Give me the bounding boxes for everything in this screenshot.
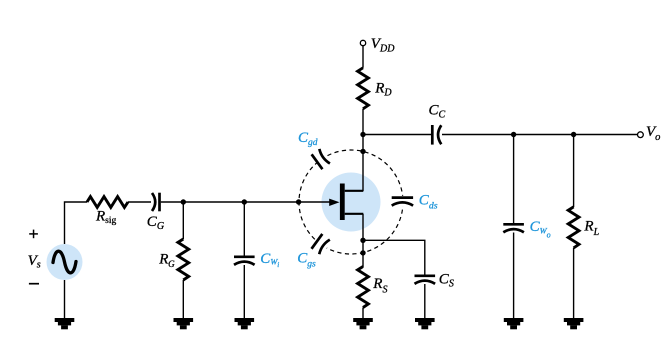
transistor Q1 source lead — [345, 213, 364, 215]
wire node B to CWi — [243, 202, 245, 256]
wire RD to drain — [362, 109, 364, 191]
capacitor CC — [432, 125, 441, 145]
resistor RL — [568, 207, 579, 248]
wire RL to ground — [573, 248, 575, 318]
node source dashed-circle junction — [360, 250, 365, 255]
terminal VDD — [360, 40, 365, 45]
wire output node to CWo — [513, 135, 515, 224]
wire VDD to RD — [362, 46, 364, 68]
terminal Vo — [638, 132, 644, 138]
resistor RS — [358, 267, 369, 308]
capacitor Cgs — [310, 233, 332, 257]
dashed capacitance circle — [299, 150, 403, 254]
node gate (dashed-circle junction) — [296, 199, 301, 204]
wire node A to RG — [182, 202, 184, 239]
capacitor Cds — [391, 196, 413, 207]
wire RG to ground — [182, 280, 184, 318]
wire Rsig to CG — [128, 201, 151, 203]
ground (RG) — [174, 318, 194, 329]
wire CC to Vo — [442, 134, 637, 136]
node CWo junction — [511, 132, 516, 137]
ground (CS) — [415, 318, 435, 329]
transistor Q1 channel bar — [340, 184, 345, 221]
ground (Vs) — [55, 318, 75, 329]
node B (CWi junction) — [242, 199, 247, 204]
wire source node to CS — [363, 240, 425, 275]
minus sign — [29, 283, 39, 285]
ground (RS) — [353, 318, 373, 329]
resistor RG — [178, 239, 189, 280]
wire RS to ground — [362, 308, 364, 319]
wire source to RS — [362, 214, 364, 267]
voltage source Vs — [47, 244, 83, 280]
resistor RD — [358, 68, 369, 109]
capacitor CWi — [234, 257, 255, 265]
resistor Rsig — [87, 197, 128, 208]
wire Vs bottom to ground — [64, 280, 66, 318]
wire drain to CC — [363, 134, 431, 136]
wire CWi to ground — [243, 265, 245, 318]
wire CS to ground — [424, 284, 426, 318]
plus sign — [29, 230, 38, 239]
node drain dashed-circle junction — [360, 149, 365, 154]
wire CG to gate arrow — [161, 201, 332, 203]
transistor Q1 drain lead — [345, 190, 364, 192]
ground (RL) — [564, 318, 584, 329]
node RL junction — [571, 132, 576, 137]
node A (RG junction) — [181, 199, 186, 204]
node drain-output junction — [360, 132, 365, 137]
ground (CWo) — [504, 318, 524, 329]
wire CWo to ground — [513, 233, 515, 319]
capacitor CG — [152, 193, 160, 212]
wire Vs top to Rsig — [65, 202, 88, 244]
capacitor CWo — [503, 224, 524, 232]
capacitor CS — [415, 276, 436, 284]
capacitor Cgd — [310, 147, 332, 171]
node source-CS junction — [360, 238, 365, 243]
wire output node to RL — [573, 135, 575, 208]
transistor Q1 gate arrow — [329, 199, 339, 206]
ground (CWi) — [235, 318, 255, 329]
transistor highlight circle — [322, 173, 381, 232]
